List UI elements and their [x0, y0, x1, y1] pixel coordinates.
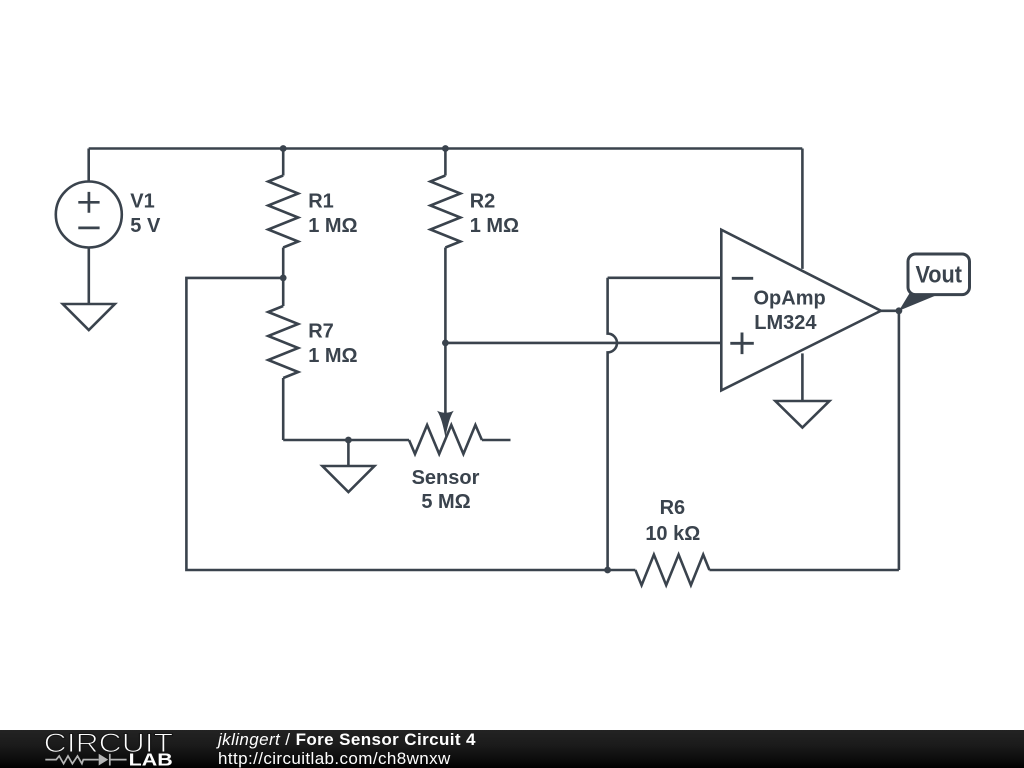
junction dot at R2 top rail — [442, 145, 449, 152]
potentiometer Sensor body — [409, 425, 482, 454]
svg-text:LAB: LAB — [129, 750, 173, 768]
wire: inverting input to op-amp — [608, 276, 722, 279]
op-amp U1 triangle — [721, 230, 881, 391]
wire: op-amp output — [881, 309, 899, 312]
wire: op-amp V+ supply from top rail — [801, 149, 804, 269]
ground below sensor node — [322, 466, 374, 492]
svg-text:Vout: Vout — [915, 261, 962, 288]
junction dot at sensor node — [442, 340, 449, 347]
footer author / title line — [218, 731, 476, 748]
footer bar — [0, 730, 1024, 768]
V1 plus sign — [78, 192, 99, 213]
svg-text:R2: R2 — [470, 190, 496, 212]
wire: sensor right stub — [482, 439, 511, 442]
svg-text:LM324: LM324 — [754, 312, 817, 334]
svg-text:R6: R6 — [660, 497, 686, 519]
resistor R6 — [635, 555, 709, 586]
Vout callout tail — [899, 293, 937, 311]
svg-text:1 MΩ: 1 MΩ — [308, 215, 357, 237]
V1 minus sign — [78, 227, 99, 230]
wire: sensor left lead — [283, 439, 409, 442]
wire: node A to left rail and bottom rail — [186, 278, 635, 570]
svg-text:1 MΩ: 1 MΩ — [308, 345, 357, 367]
resistor R2 — [430, 176, 460, 248]
wire: op-amp V- supply stem — [801, 353, 804, 401]
wire: R1 top lead — [282, 149, 285, 176]
wire: R7 top lead — [282, 278, 285, 306]
wire: sensor ground stem — [347, 440, 350, 466]
junction dot at op-amp output — [896, 307, 903, 314]
wire: R2 bottom lead to sensor arrow — [444, 248, 447, 415]
svg-text:5 MΩ: 5 MΩ — [421, 491, 470, 513]
wire: non-inverting input from sensor node — [445, 342, 721, 345]
wire: vertical feedback branch with hop over + input — [608, 278, 617, 570]
logo resistor+diode symbol — [45, 754, 126, 766]
footer url line — [218, 750, 451, 767]
wire: R7 bottom lead — [282, 378, 285, 440]
node A junction dot (R1/R7) — [280, 275, 287, 282]
wire: top supply rail — [89, 147, 803, 150]
wire: R2 top lead — [444, 149, 447, 176]
junction dot at bottom rail / feedback — [604, 567, 611, 574]
svg-text:OpAmp: OpAmp — [754, 288, 826, 310]
svg-text:Sensor: Sensor — [412, 467, 480, 489]
junction dot at R1 top rail — [280, 145, 287, 152]
svg-text:1 MΩ: 1 MΩ — [470, 215, 519, 237]
wire: R6 right lead — [709, 569, 899, 572]
svg-text:10 kΩ: 10 kΩ — [645, 523, 700, 545]
junction dot at sensor ground — [345, 437, 352, 444]
svg-text:R1: R1 — [308, 190, 334, 212]
wire: V1 bottom lead — [88, 248, 91, 305]
ground below V1 — [63, 304, 115, 330]
op-amp minus input symbol — [732, 277, 753, 280]
Vout flag box — [908, 254, 970, 295]
op-amp plus input symbol — [730, 333, 754, 355]
resistor R7 — [268, 306, 298, 378]
sensor wiper arrowhead — [437, 411, 454, 438]
voltage source V1 — [56, 182, 122, 248]
svg-text:V1: V1 — [130, 191, 154, 213]
wire: output down to R6 — [898, 311, 901, 570]
wire: V1 top lead — [87, 149, 90, 182]
wire: R1 bottom lead — [282, 248, 285, 278]
ground below op-amp — [775, 401, 829, 428]
svg-text:R7: R7 — [308, 320, 334, 342]
resistor R1 — [268, 176, 298, 248]
svg-text:5 V: 5 V — [130, 215, 161, 237]
